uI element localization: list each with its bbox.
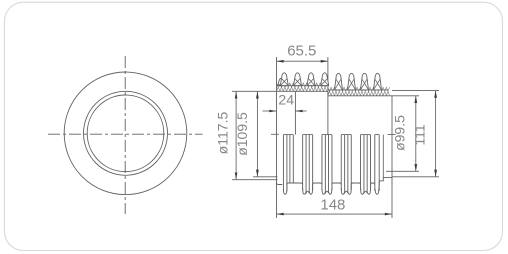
- dimension 111 line+arrows: [434, 91, 437, 177]
- ø117.5 top extension line: [232, 90, 277, 92]
- dimension 65.5 text: [287, 43, 316, 60]
- corrugation bottom profile: [277, 178, 393, 195]
- dimension ø117.5 line+arrows: [235, 91, 238, 179]
- dimension 111 text: [411, 124, 427, 145]
- dimension ø109.5 line+arrows: [256, 91, 259, 177]
- thread root line left section: [277, 90, 328, 92]
- body left edge + 148 left extension line: [276, 57, 278, 218]
- body right edge + 148 right extension line: [391, 96, 393, 218]
- thread section step: [327, 91, 329, 96]
- svg-text:65.5: 65.5: [287, 43, 316, 60]
- dimension ø99.5 text: [392, 115, 408, 151]
- thread tooth right 1: [335, 73, 343, 90]
- thread root zigzag right section B: [328, 87, 390, 95]
- left view ring inner circle: [87, 95, 164, 172]
- ø99.5 bottom extension line: [386, 170, 419, 172]
- thread tooth left small leading: [278, 79, 284, 86]
- thread root zigzag left section B: [277, 83, 327, 91]
- dimension 148 line+arrows: [277, 213, 393, 216]
- thread base line right section: [328, 89, 388, 91]
- 65.5 right extension / section step line: [327, 57, 329, 135]
- thread tooth left 2: [294, 73, 302, 86]
- thread root zigzag right section A: [328, 87, 390, 95]
- ø109.5 bottom extension line: [253, 176, 278, 178]
- dimension ø109.5 text: [234, 112, 250, 156]
- svg-text:148: 148: [320, 197, 345, 214]
- svg-text:ø117.5: ø117.5: [214, 112, 230, 155]
- dimension 65.5 line+arrows: [277, 60, 328, 63]
- svg-text:ø109.5: ø109.5: [234, 112, 250, 156]
- left view outer circle: [64, 72, 187, 195]
- thread root line right section: [328, 95, 392, 97]
- dimension ø99.5 line+arrows: [414, 96, 417, 172]
- thread tooth right 3: [361, 73, 369, 90]
- 111 bottom extension line: [392, 176, 439, 178]
- svg-text:24: 24: [278, 91, 294, 107]
- thread base line left section: [277, 85, 328, 87]
- svg-text:111: 111: [411, 124, 427, 145]
- right view axis tick right: [388, 134, 396, 136]
- corrugation comb lines: [283, 135, 383, 193]
- left view vertical centerline: [124, 56, 126, 214]
- thread tooth left 1: [280, 73, 288, 86]
- svg-text:ø99.5: ø99.5: [392, 115, 408, 151]
- thread tooth right 2: [348, 73, 356, 90]
- dimension 24 line+arrows: [263, 110, 307, 113]
- thread tooth right 4: [374, 73, 382, 90]
- left view horizontal centerline: [48, 133, 203, 135]
- left view ring outer circle: [84, 91, 168, 175]
- dimension 148 text: [320, 197, 345, 214]
- dimension 24 text: [278, 91, 294, 107]
- ø99.5 top extension line: [392, 95, 419, 97]
- ø117.5 bottom extension line: [232, 179, 278, 181]
- thread tooth left 4: [321, 73, 329, 86]
- 111 top extension line: [392, 90, 439, 92]
- thread tooth left 3: [307, 73, 315, 86]
- thread root zigzag left section A: [277, 83, 327, 91]
- right view axis tick left: [271, 133, 279, 135]
- internal bore edge (24 right extension): [294, 91, 296, 134]
- dimension ø117.5 text: [214, 112, 230, 155]
